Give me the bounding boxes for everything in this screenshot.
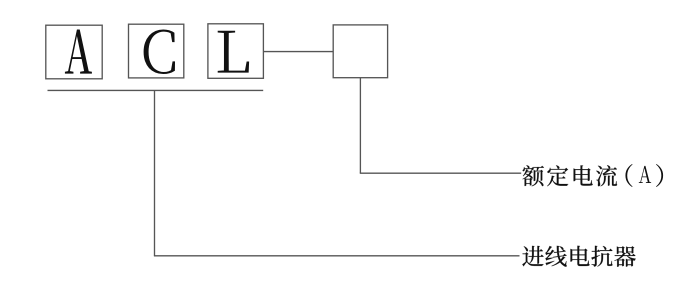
box A — [46, 25, 102, 79]
empty code box — [333, 25, 387, 78]
letter L — [218, 31, 249, 73]
wire to rated-current label — [360, 172, 521, 174]
letter C — [144, 30, 175, 74]
letter A — [65, 30, 92, 74]
underline under ACL — [48, 89, 264, 91]
wire L box to code box — [263, 51, 333, 53]
box L — [208, 24, 264, 79]
label 额定电流（A） — [522, 164, 663, 187]
box C — [129, 24, 184, 78]
wire to reactor label — [154, 255, 520, 257]
wire down from code box — [359, 78, 361, 174]
label 进线电抗器 — [522, 246, 635, 267]
wire down from underline — [154, 90, 156, 255]
